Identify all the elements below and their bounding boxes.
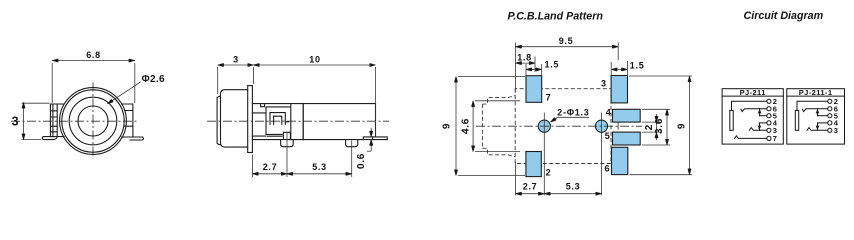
tip contact PJ-211-1 — [802, 109, 827, 112]
wire pin 4 PJ-211 — [759, 122, 766, 124]
dimension 3.6 — [666, 109, 668, 145]
dimension 6.8 extension lines — [52, 63, 135, 103]
body right edge — [375, 104, 377, 137]
body bottom edge — [252, 139, 387, 141]
hole 2 — [595, 120, 607, 132]
dimension 2.7 — [252, 173, 287, 175]
pin bend line — [372, 137, 374, 140]
contact spring detail — [270, 113, 289, 125]
switch arrow 4-3 PJ-211-1 — [816, 126, 820, 131]
FRONT VIEW — [11, 50, 165, 159]
switch arrow 4-3 PJ-211 — [758, 126, 762, 131]
component outline dashed — [482, 89, 611, 164]
dimension 3 extension lines — [22, 103, 50, 139]
sleeve contact PJ-211-1 — [795, 110, 798, 130]
dimension 9.5 — [516, 46, 619, 48]
svg-text:4: 4 — [606, 107, 612, 117]
switch arrow 6-5 PJ-211 — [758, 109, 762, 114]
wire pin 2 PJ-211 — [732, 101, 767, 110]
label 2-Φ1.3 leader — [551, 117, 590, 122]
svg-text:5.3: 5.3 — [312, 162, 327, 172]
dimension 1.5 left — [526, 68, 542, 70]
dimension 3 barrel — [218, 64, 254, 66]
hole 1 — [538, 120, 550, 132]
svg-text:4.6: 4.6 — [461, 118, 472, 134]
svg-text:2-Φ1.3: 2-Φ1.3 — [557, 107, 589, 117]
switch link 6-5 PJ-211 — [759, 109, 761, 116]
svg-text:7: 7 — [773, 134, 777, 143]
svg-text:PJ-211-1: PJ-211-1 — [799, 88, 833, 97]
box PJ-211 — [722, 89, 783, 144]
rear foot — [346, 140, 358, 147]
dimension 9 left extension lines — [458, 77, 525, 176]
svg-text:3.6: 3.6 — [654, 118, 665, 134]
outer circle — [60, 88, 127, 155]
dimension 3 — [23, 102, 25, 139]
centerline horizontal — [11, 120, 139, 122]
SIDE VIEW — [207, 54, 389, 177]
dimension 10 — [254, 64, 376, 66]
svg-text:9.5: 9.5 — [559, 36, 574, 46]
center hole circle — [78, 106, 108, 136]
pad 4 — [613, 109, 641, 122]
svg-text:3: 3 — [601, 78, 607, 88]
svg-text:2: 2 — [546, 168, 552, 178]
svg-text:5: 5 — [605, 131, 611, 141]
pin circle 6 PJ-211 — [767, 107, 771, 111]
svg-text:5.3: 5.3 — [566, 181, 581, 191]
svg-text:Φ2.6: Φ2.6 — [142, 74, 165, 85]
svg-text:3: 3 — [12, 115, 20, 129]
pad 5 — [613, 132, 641, 145]
svg-text:2.7: 2.7 — [263, 162, 278, 172]
window right edge — [290, 104, 292, 140]
top dims extension lines — [218, 67, 376, 137]
left lug foot — [42, 136, 57, 139]
svg-text:7: 7 — [546, 93, 552, 103]
centerline — [207, 120, 389, 122]
pads 4-5 center mark — [617, 121, 619, 132]
pin circle 6 PJ-211-1 — [828, 107, 832, 111]
bore hidden lines — [252, 113, 266, 136]
right pin lead — [363, 137, 387, 140]
wire pin 7 PJ-211 — [735, 136, 767, 139]
hole 1 center axis — [543, 113, 545, 196]
wire pin 2 PJ-211-1 — [797, 101, 828, 110]
pin circle 5 PJ-211 — [767, 114, 771, 118]
svg-text:2.7: 2.7 — [523, 181, 538, 191]
front rim plate — [217, 96, 220, 144]
left mounting lug — [50, 104, 64, 137]
label Φ2.6 leader — [108, 82, 141, 104]
svg-text:6: 6 — [605, 164, 611, 174]
contact window — [266, 107, 291, 136]
pin circle 3 PJ-211 — [767, 128, 771, 132]
pin circle 2 PJ-211 — [767, 99, 771, 103]
pin circle 3 PJ-211-1 — [828, 128, 832, 132]
switch link 6-5 PJ-211-1 — [817, 109, 819, 116]
switch link 4-3 PJ-211 — [758, 123, 760, 130]
dimension 1.5 right — [611, 68, 627, 70]
svg-text:6.8: 6.8 — [86, 50, 101, 60]
tip contact PJ-211 — [741, 109, 767, 112]
svg-text:P.C.B.Land Pattern: P.C.B.Land Pattern — [507, 11, 603, 23]
dimension 4.6 extension lines — [475, 101, 520, 152]
pad 3 — [611, 76, 627, 103]
CIRCUIT DIAGRAM — [722, 10, 844, 144]
svg-text:10: 10 — [309, 54, 320, 64]
svg-text:3: 3 — [233, 54, 239, 64]
sleeve contact PJ-211 — [730, 110, 733, 130]
outer rim circle — [62, 90, 124, 152]
dimension 1.8 — [516, 62, 535, 64]
dimension 6.8 — [52, 60, 135, 62]
hole 2 center axis — [601, 113, 603, 196]
dimension 9.5 extension lines — [515, 43, 618, 93]
svg-text:9: 9 — [677, 123, 688, 129]
pin circle 5 PJ-211-1 — [828, 114, 832, 118]
dimension 5.3 bottom — [544, 193, 601, 195]
dimension 4.6 — [472, 101, 474, 152]
centerline vertical — [92, 83, 94, 159]
box PJ-211-1 — [787, 89, 845, 144]
dimension 3.6 extension lines — [642, 109, 670, 145]
dimension 2.7 bottom — [516, 193, 545, 195]
dimension 5.3 — [287, 173, 352, 175]
ring contact PJ-211-1 — [807, 128, 828, 131]
dimension 0.6 arrows — [370, 128, 372, 137]
pad 2 — [526, 152, 541, 177]
dimension 9 right extension lines — [629, 76, 692, 175]
wire pin 5 PJ-211-1 — [818, 115, 828, 117]
front foot — [281, 140, 294, 147]
middle circle — [69, 97, 117, 145]
svg-text:1.8: 1.8 — [517, 52, 532, 62]
pad 6 — [612, 147, 628, 174]
bottom dims extension lines — [252, 133, 351, 177]
small block above front foot — [283, 132, 290, 138]
right lug foot — [130, 137, 143, 140]
svg-text:3: 3 — [834, 126, 838, 135]
flange — [248, 86, 253, 153]
pin circle 4 PJ-211 — [767, 121, 771, 125]
LAND PATTERN — [442, 11, 693, 196]
right mounting lug — [122, 104, 133, 137]
dimension 2 right arrows — [656, 114, 658, 122]
body top edge — [252, 103, 375, 105]
pattern centerline — [476, 125, 642, 127]
box PJ-211 header line — [722, 95, 783, 97]
ring contact PJ-211 — [749, 128, 766, 131]
dimension 9 right — [689, 76, 691, 175]
switch arrow 6-5 PJ-211-1 — [816, 109, 820, 114]
svg-text:PJ-211: PJ-211 — [740, 88, 766, 97]
svg-text:Circuit Diagram: Circuit Diagram — [744, 10, 824, 22]
wire pin 4 PJ-211-1 — [818, 122, 828, 124]
pin circle 7 PJ-211 — [767, 136, 771, 140]
barrel — [221, 90, 248, 147]
pin circle 2 PJ-211-1 — [828, 99, 832, 103]
dimension 2 right extension lines — [642, 122, 661, 132]
svg-text:1.5: 1.5 — [630, 61, 645, 71]
top notch — [261, 104, 265, 107]
box PJ-211-1 header line — [787, 95, 845, 97]
pin circle 4 PJ-211-1 — [828, 121, 832, 125]
divider line — [302, 104, 304, 140]
pad 7 — [526, 76, 542, 103]
bottom extension line — [514, 162, 516, 195]
wire pin 5 PJ-211 — [760, 115, 767, 117]
svg-text:0.6: 0.6 — [356, 153, 367, 169]
svg-text:1.5: 1.5 — [545, 60, 560, 70]
switch link 4-3 PJ-211-1 — [817, 123, 819, 130]
svg-text:9: 9 — [442, 123, 453, 129]
dimension 9 left — [455, 77, 457, 176]
